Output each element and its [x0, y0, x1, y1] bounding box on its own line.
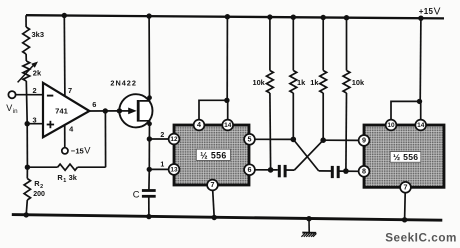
capacitor C2 — [331, 166, 334, 178]
U2 pin 4 — [194, 120, 205, 131]
svg-text:SeekIC.com: SeekIC.com — [385, 232, 457, 245]
svg-text:5: 5 — [248, 135, 252, 144]
svg-text:1k: 1k — [297, 78, 306, 87]
U3 pin 9 — [359, 135, 370, 146]
node U2 pin 13 branch — [147, 167, 152, 172]
svg-text:1: 1 — [63, 178, 66, 184]
svg-text:2N422: 2N422 — [110, 78, 137, 87]
U3 pin 8 — [359, 166, 370, 177]
svg-text:C: C — [133, 189, 140, 200]
resistor 3k3 — [23, 27, 30, 54]
U2 pin 13 — [169, 164, 180, 175]
svg-text:14: 14 — [224, 122, 232, 129]
node U3 pin7 / rail — [402, 217, 407, 222]
svg-text:741: 741 — [55, 107, 68, 116]
potentiometer 2k — [23, 61, 30, 81]
dot on drain lead — [147, 95, 152, 100]
node at op-amp pin 3 / bias — [25, 121, 30, 126]
wire U2 pin 5 to node A — [255, 138, 294, 140]
U2 pin 7 — [207, 180, 218, 191]
junction top rail / R 1k left — [291, 15, 296, 20]
resistor R2 200 — [26, 167, 28, 178]
svg-text:200: 200 — [33, 191, 45, 198]
svg-text:3k: 3k — [69, 173, 78, 182]
svg-text:1: 1 — [160, 161, 164, 168]
wire U3 pins 10-14 strap — [391, 101, 421, 119]
svg-text:2: 2 — [40, 184, 43, 190]
ground symbol — [308, 219, 310, 232]
resistor 10k (right) — [346, 18, 348, 71]
junction top rail / U2 pins 4-14 — [225, 14, 230, 19]
node ground symbol / rail — [306, 216, 311, 221]
junction top rail / Q1 drain — [146, 13, 151, 18]
wire strap to +15V rail — [419, 18, 422, 101]
U2 pin 12 — [169, 134, 180, 145]
terminal Vin — [8, 91, 15, 98]
svg-text:3k3: 3k3 — [32, 30, 45, 39]
wire diagonal C1 to node B — [294, 140, 323, 170]
wire pin3 node down to R1-R2 node — [26, 124, 28, 168]
node A (1k left / pin5) — [291, 137, 297, 143]
svg-text:in: in — [13, 108, 18, 115]
resistor 10k (left) — [269, 17, 271, 70]
U3 pin 7 — [400, 182, 411, 193]
wire 3k3 to 2k pot — [25, 54, 27, 61]
resistor 1k (right) — [322, 18, 324, 71]
wire C to ground rail — [148, 196, 150, 216]
wire pin3 node to op-amp pin 3 — [27, 123, 43, 125]
junction top rail / +15V feed — [418, 16, 423, 21]
wire Q1 source down — [140, 121, 150, 139]
op-amp U1 741 — [43, 83, 89, 137]
svg-text:6: 6 — [92, 100, 96, 109]
U3 pin 14 — [415, 120, 426, 131]
node strap to +15V — [417, 99, 422, 104]
resistor R1 3k — [27, 166, 57, 168]
svg-text:12: 12 — [170, 136, 178, 143]
svg-text:10k: 10k — [352, 78, 365, 87]
junction top rail / R 1k right — [321, 15, 326, 20]
node Q1 source / U2 pin 12 — [147, 136, 152, 141]
wire node B to U3 pin 9 — [323, 139, 359, 141]
wire C1 to diagonal — [285, 169, 294, 171]
node C / rail — [146, 214, 151, 219]
wire C2 to U3 pin 8 — [338, 170, 359, 172]
svg-text:V: V — [84, 146, 91, 156]
junction top rail / R 10k left — [267, 14, 272, 19]
wire node A diagonal to C2 — [293, 139, 318, 171]
wire node to U2 pin 13 — [149, 168, 169, 170]
svg-text:+15: +15 — [419, 7, 434, 16]
capacitor C1 — [278, 165, 281, 177]
svg-text:V: V — [6, 103, 12, 113]
IC U2 half 556 body — [174, 125, 249, 185]
wire down to capacitor C — [148, 169, 150, 190]
junction top rail / R 10k right — [344, 15, 349, 20]
svg-text:8: 8 — [362, 167, 366, 176]
svg-text:½ 556: ½ 556 — [200, 150, 226, 160]
power rail +15V (top) — [26, 15, 444, 18]
dot on source lead — [147, 121, 152, 126]
svg-text:7: 7 — [211, 180, 215, 189]
svg-text:6: 6 — [248, 165, 252, 174]
wire rail to 3k3 — [25, 15, 27, 27]
svg-text:13: 13 — [170, 167, 178, 174]
wire U2 pins 4-14 strap — [199, 100, 228, 120]
node R2 / rail — [24, 212, 29, 217]
wire op-amp output to Q1 gate — [89, 110, 119, 112]
node B (1k right / pin9) — [320, 137, 326, 143]
U2 pin 6 — [244, 164, 255, 175]
wire diag to capacitor C2 — [319, 170, 333, 172]
wire strap to +15V rail — [226, 17, 228, 101]
wire 2k down crossing Vin wire to pin3 node — [25, 81, 28, 124]
svg-text:14: 14 — [417, 122, 425, 129]
svg-text:2k: 2k — [33, 69, 42, 78]
wire source node down — [148, 139, 150, 169]
svg-text:9: 9 — [362, 136, 366, 145]
node 10k right / pin8 wire — [343, 168, 349, 174]
svg-text:10: 10 — [387, 122, 395, 129]
svg-text:½ 556: ½ 556 — [393, 152, 418, 162]
svg-text:7: 7 — [68, 86, 72, 95]
svg-text:3: 3 — [33, 116, 37, 125]
wire Vin to op-amp pin 2 — [15, 94, 43, 96]
svg-text:10k: 10k — [252, 78, 265, 87]
IC U3 half 556 body — [364, 125, 444, 187]
U2 pin 14 — [222, 120, 233, 131]
resistor 1k (left) — [292, 17, 294, 70]
node Q1 gate entry — [117, 108, 122, 113]
wire U2 pin 7 to ground rail — [213, 190, 215, 217]
svg-text:V: V — [434, 6, 441, 17]
svg-text:−15: −15 — [71, 146, 85, 155]
svg-text:1k: 1k — [310, 78, 319, 87]
wire op-amp pin 4 to -15V terminal — [64, 125, 66, 148]
wire node to U2 pin 12 — [149, 138, 168, 140]
wire op-amp pin 7 to +15V rail — [63, 16, 66, 97]
U2 pin 5 — [244, 134, 255, 145]
node R1 / R2 / bias — [25, 165, 30, 170]
junction top rail / op-amp pin7 — [62, 13, 67, 18]
svg-text:4: 4 — [197, 120, 201, 129]
wire Q1 drain to rail — [140, 16, 150, 101]
wire U2 pin 6 to capacitor C1 — [255, 169, 278, 171]
capacitor C — [142, 189, 156, 192]
terminal -15V — [62, 148, 68, 154]
node op-amp output pin 6 — [103, 108, 108, 113]
svg-text:2: 2 — [33, 86, 37, 95]
wire output node down to R1 — [104, 111, 106, 167]
node 10k left / pin6 wire — [268, 167, 274, 173]
wire U3 pin 7 to ground rail — [404, 193, 407, 220]
transistor Q1 2N422 — [119, 94, 152, 127]
node strap to rail — [224, 98, 229, 103]
node U2 pin7 / rail — [212, 215, 217, 220]
svg-text:7: 7 — [404, 183, 408, 192]
ground rail (bottom) — [12, 215, 443, 221]
svg-text:2: 2 — [160, 132, 164, 139]
U3 pin 10 — [386, 120, 397, 131]
